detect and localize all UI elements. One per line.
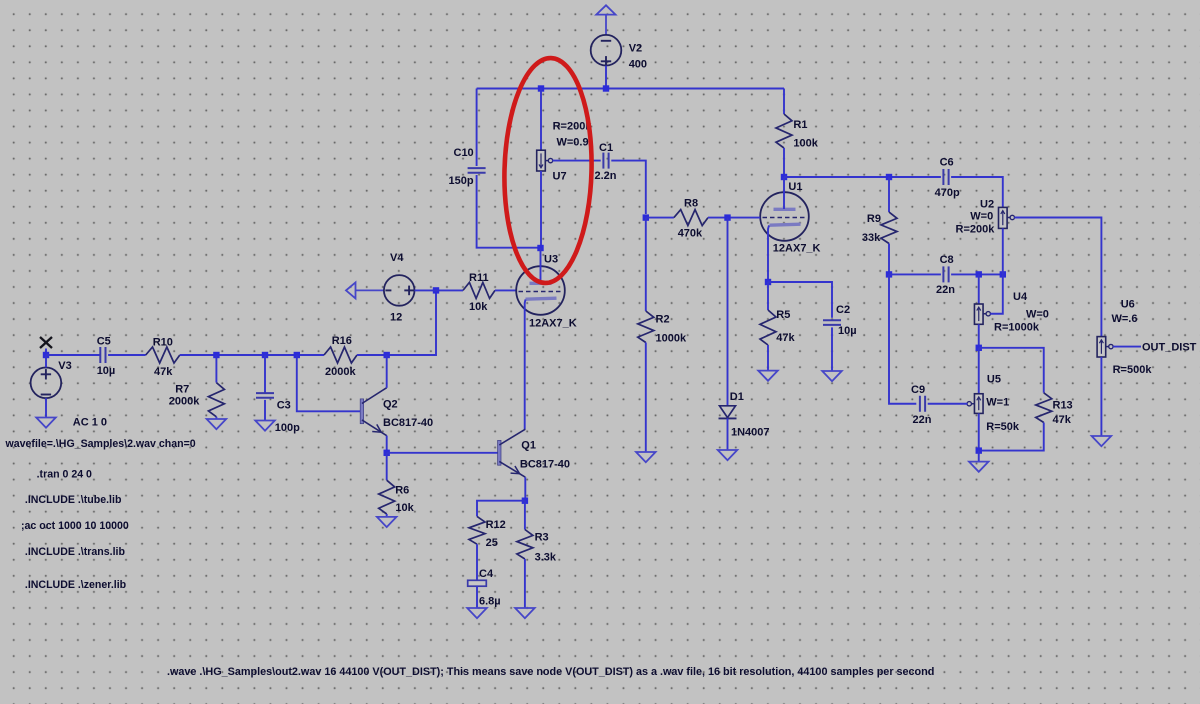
svg-text:12AX7_K: 12AX7_K xyxy=(773,243,821,255)
wire R12 to C4 xyxy=(476,544,478,580)
junction input node xyxy=(43,352,49,358)
junction C1/R8/R2 node xyxy=(643,214,649,220)
svg-text:BC817-40: BC817-40 xyxy=(383,417,433,429)
potentiometer U5 xyxy=(967,373,1020,433)
svg-text:R5: R5 xyxy=(776,309,790,321)
svg-text:10µ: 10µ xyxy=(97,365,116,377)
diode D1 xyxy=(719,391,770,438)
svg-text:470p: 470p xyxy=(935,187,960,199)
svg-text:R3: R3 xyxy=(535,532,549,544)
wire top B+ rail xyxy=(477,88,784,90)
svg-text:U2: U2 xyxy=(980,199,994,211)
svg-text:100k: 100k xyxy=(793,137,818,149)
resistor R12 xyxy=(469,516,506,548)
voltage source V2 xyxy=(591,35,647,70)
ground below R3 xyxy=(515,608,535,618)
transistor Q2 xyxy=(360,388,433,436)
svg-text:U3: U3 xyxy=(544,253,558,265)
svg-text:12AX7_K: 12AX7_K xyxy=(529,317,577,329)
svg-text:W=0: W=0 xyxy=(970,211,993,223)
junction U1 plate node xyxy=(781,174,787,180)
svg-text:W=1: W=1 xyxy=(986,396,1009,408)
svg-text:V2: V2 xyxy=(629,43,642,55)
wire U5 bottom lead xyxy=(978,413,980,450)
wire R1 top lead xyxy=(783,89,785,115)
wire X stub xyxy=(45,349,47,356)
resistor R13 xyxy=(1036,393,1073,426)
wire U2 bottom lead xyxy=(1002,228,1004,274)
junction V2 on rail xyxy=(603,85,609,91)
wire U7 wiper to C1 xyxy=(552,160,600,162)
wire C1 to R8 node xyxy=(611,161,646,214)
resistor R11 xyxy=(463,272,495,313)
svg-text:C9: C9 xyxy=(911,384,925,396)
ground below C3 xyxy=(255,421,275,431)
voltage source V3 xyxy=(31,360,107,429)
wire R2 bottom lead xyxy=(645,343,647,453)
wire C10 left branch bottom xyxy=(477,175,541,248)
svg-text:22n: 22n xyxy=(936,284,955,296)
junction U1 cathode node xyxy=(765,279,771,285)
wire R13 bottom lead xyxy=(979,423,1044,451)
svg-text:C1: C1 xyxy=(599,142,613,154)
resistor R7 xyxy=(169,383,225,417)
capacitor C10 xyxy=(449,147,486,187)
junction U7 top on rail xyxy=(538,85,544,91)
svg-text:2.2n: 2.2n xyxy=(595,170,617,182)
wire R6 top lead xyxy=(386,453,388,480)
wire U3 cathode lead xyxy=(524,299,527,429)
wire D1 top lead xyxy=(727,218,729,406)
resistor R2 xyxy=(638,311,687,344)
capacitor C5 xyxy=(97,335,116,377)
wire U4 node to R13 xyxy=(979,348,1044,393)
power flag left of V4 xyxy=(346,282,384,298)
svg-text:.INCLUDE .\tube.lib: .INCLUDE .\tube.lib xyxy=(25,494,122,506)
wire U6 bottom lead xyxy=(1100,357,1102,436)
junction R7 node xyxy=(213,352,219,358)
power flag above V2 xyxy=(596,5,615,34)
svg-text:1000k: 1000k xyxy=(656,332,687,344)
svg-text:BC817-40: BC817-40 xyxy=(520,459,570,471)
ground below R7 xyxy=(207,419,227,429)
resistor R1 xyxy=(776,114,819,149)
voltage source V4 xyxy=(384,252,415,324)
wire R1 bottom lead xyxy=(783,148,785,177)
resistor R10 xyxy=(146,337,180,379)
svg-text:R2: R2 xyxy=(656,313,670,325)
resistor R16 xyxy=(324,335,357,378)
wire U1 cathode lead xyxy=(768,225,769,282)
wire C3 top lead xyxy=(264,355,266,393)
wire U6 wiper wire xyxy=(1113,346,1141,348)
wire C4 bottom lead xyxy=(476,586,478,608)
resistor R6 xyxy=(379,480,415,514)
wire C8 rail right xyxy=(951,273,1003,275)
wire C10 left branch top xyxy=(476,89,478,167)
svg-text:R6: R6 xyxy=(395,484,409,496)
junction C3 node xyxy=(262,352,268,358)
svg-text:.INCLUDE .\trans.lib: .INCLUDE .\trans.lib xyxy=(25,546,126,558)
capacitor C2 xyxy=(823,304,857,337)
svg-text:C5: C5 xyxy=(97,335,111,347)
wire R9 down to C9 xyxy=(889,274,916,403)
wire C6 to U2 top xyxy=(951,177,1003,207)
junction Q1 emitter node xyxy=(522,498,528,504)
ground below V3 xyxy=(36,418,56,428)
junction R9 bottom node xyxy=(886,271,892,277)
svg-text:R9: R9 xyxy=(867,213,881,225)
junction R9 top on plate rail xyxy=(886,174,892,180)
svg-text:150p: 150p xyxy=(449,175,474,187)
wire R3 top lead xyxy=(524,501,526,530)
wire R7 top lead xyxy=(215,355,217,383)
svg-text:22n: 22n xyxy=(913,414,932,426)
svg-text:R7: R7 xyxy=(175,384,189,396)
svg-text:U7: U7 xyxy=(553,171,567,183)
svg-text:R13: R13 xyxy=(1053,399,1073,411)
triode U3 xyxy=(516,253,577,329)
svg-text:R=200k: R=200k xyxy=(956,224,996,236)
wire C8 rail left xyxy=(889,273,941,275)
resistor R5 xyxy=(760,309,796,345)
triode U1 xyxy=(760,181,820,255)
svg-text:25: 25 xyxy=(486,537,498,549)
potentiometer U7 xyxy=(537,121,593,183)
ground below D1 xyxy=(718,450,738,460)
svg-text:C8: C8 xyxy=(940,254,954,266)
svg-text:C6: C6 xyxy=(940,156,954,168)
wire R16 to V4 corner xyxy=(357,290,436,355)
svg-text:Q2: Q2 xyxy=(383,398,398,410)
wire V3 top lead xyxy=(45,355,47,367)
svg-text:Q1: Q1 xyxy=(521,439,536,451)
wire D1 bottom lead xyxy=(727,418,729,450)
wire U1 grid lead xyxy=(728,217,761,219)
svg-text:D1: D1 xyxy=(730,391,744,403)
wire R3 bottom lead xyxy=(524,559,526,608)
capacitor C3 xyxy=(256,393,300,434)
svg-text:R=50k: R=50k xyxy=(986,421,1020,433)
wire Q1 emitter wire xyxy=(524,477,526,501)
wire U4 wiper loop xyxy=(990,274,1003,313)
svg-text:R1: R1 xyxy=(793,119,807,131)
wire U7 top lead xyxy=(540,89,542,151)
svg-text:R16: R16 xyxy=(332,335,352,347)
wire R9 bottom lead xyxy=(888,244,890,275)
wire Q2 collector wire xyxy=(386,355,388,388)
wire C5 to R10 xyxy=(108,354,146,356)
wire emitter node to R12 xyxy=(477,501,525,517)
ground below R6 xyxy=(377,517,397,527)
svg-text:OUT_DIST: OUT_DIST xyxy=(1142,341,1197,353)
wire V3 bottom lead xyxy=(45,398,47,417)
svg-text:W=.6: W=.6 xyxy=(1112,313,1138,325)
wire U5 top lead xyxy=(978,348,980,394)
svg-text:U4: U4 xyxy=(1013,291,1028,303)
ground below R2 xyxy=(636,452,656,462)
svg-text:10k: 10k xyxy=(469,301,488,313)
wire R10 to R16 rail xyxy=(180,354,324,356)
svg-text:R=500k: R=500k xyxy=(1113,364,1153,376)
wire Q2 emitter wire xyxy=(386,436,388,453)
wire cathode node to C2 xyxy=(768,282,832,318)
resistor R3 xyxy=(517,530,557,564)
svg-text:3.3k: 3.3k xyxy=(535,552,557,564)
svg-text:C10: C10 xyxy=(454,147,474,159)
junction U4 bottom node xyxy=(976,345,982,351)
resistor R9 xyxy=(862,212,897,244)
ground below U6 xyxy=(1092,436,1112,446)
capacitor C9 xyxy=(911,384,932,426)
capacitor C8 xyxy=(936,254,955,296)
wire Q2 base wire xyxy=(297,355,360,411)
svg-text:V4: V4 xyxy=(390,252,404,264)
input port X xyxy=(40,337,52,348)
wire R7 bottom lead xyxy=(215,417,217,419)
junction U2 bottom node xyxy=(1000,271,1006,277)
svg-text:C3: C3 xyxy=(277,399,291,411)
potentiometer U2 xyxy=(956,199,1015,236)
ground below C2 xyxy=(822,371,842,381)
svg-text:.INCLUDE .\zener.lib: .INCLUDE .\zener.lib xyxy=(25,579,127,591)
svg-text:100p: 100p xyxy=(275,422,300,434)
wire V4 corner to R11 xyxy=(436,289,463,291)
wire U2 wiper to U6 xyxy=(1014,218,1101,337)
svg-text:wavefile=.\HG_Samples\2.wav ch: wavefile=.\HG_Samples\2.wav chan=0 xyxy=(5,438,196,450)
svg-text:33k: 33k xyxy=(862,232,881,244)
svg-text:6.8µ: 6.8µ xyxy=(479,596,501,608)
junction U4 top node xyxy=(976,271,982,277)
junction Q2 emitter node xyxy=(384,450,390,456)
wire U3 plate lead xyxy=(540,248,542,283)
wire R8 left lead xyxy=(646,217,674,219)
svg-text:400: 400 xyxy=(629,58,647,70)
wire Q1 base wire xyxy=(387,452,498,454)
capacitor C1 xyxy=(595,142,617,182)
wire U5 ground stem xyxy=(978,451,980,462)
wire V2 to rail xyxy=(605,66,607,89)
junction V4 corner node xyxy=(433,287,439,293)
wire R6 bottom lead xyxy=(386,514,388,517)
wire R2 top lead xyxy=(645,218,647,311)
svg-text:U6: U6 xyxy=(1121,298,1135,310)
wire R11 to U3 grid xyxy=(495,289,516,291)
wire R8 right lead xyxy=(708,217,728,219)
potentiometer U4 xyxy=(974,291,1048,334)
svg-text:2000k: 2000k xyxy=(169,396,200,408)
svg-text:W=0: W=0 xyxy=(1026,308,1049,320)
red annotation ellipse xyxy=(502,57,595,284)
wire R9 top lead xyxy=(888,177,890,212)
svg-text:12: 12 xyxy=(390,312,402,324)
junction R8/D1 node xyxy=(724,214,730,220)
wire C9 to U5 wiper xyxy=(928,403,968,405)
wire U1 plate lead xyxy=(783,177,785,209)
capacitor C6 xyxy=(935,156,960,199)
svg-text:C4: C4 xyxy=(479,568,494,580)
svg-text:.tran 0 24 0: .tran 0 24 0 xyxy=(37,469,92,481)
svg-text:C2: C2 xyxy=(836,304,850,316)
wire input rail to C5 xyxy=(46,354,100,356)
svg-text:R=1000k: R=1000k xyxy=(994,322,1040,334)
svg-text:R8: R8 xyxy=(684,197,698,209)
wire U7 bottom lead xyxy=(540,171,542,248)
svg-text:10µ: 10µ xyxy=(838,325,857,337)
svg-text:U5: U5 xyxy=(987,373,1001,385)
wire V4 to R11 xyxy=(415,289,437,291)
ground below U5 xyxy=(969,462,989,472)
potentiometer U6 xyxy=(1097,298,1152,376)
svg-text:.wave .\HG_Samples\out2.wav 16: .wave .\HG_Samples\out2.wav 16 44100 V(O… xyxy=(167,666,934,678)
ground below R5 xyxy=(758,371,778,381)
junction Q2 base node xyxy=(294,352,300,358)
svg-text:AC 1 0: AC 1 0 xyxy=(73,417,107,429)
svg-text:U1: U1 xyxy=(788,181,802,193)
svg-text:470k: 470k xyxy=(678,227,703,239)
svg-text:10k: 10k xyxy=(395,502,414,514)
svg-text:47k: 47k xyxy=(1053,414,1072,426)
wire U4 top lead xyxy=(978,274,980,304)
wire R5 bottom lead xyxy=(767,345,769,371)
junction U5 bottom node xyxy=(976,447,982,453)
svg-text:R11: R11 xyxy=(469,272,489,284)
wire C2 bottom lead xyxy=(831,327,833,371)
junction Q2 collector node xyxy=(384,352,390,358)
wire R5 top lead xyxy=(767,282,769,310)
ground below C4 xyxy=(467,608,487,618)
svg-text:W=0.9: W=0.9 xyxy=(557,137,589,149)
wire C3 bottom lead xyxy=(264,400,266,421)
svg-text:2000k: 2000k xyxy=(325,366,356,378)
capacitor C4 xyxy=(468,568,501,607)
svg-text:1N4007: 1N4007 xyxy=(731,426,770,438)
wire U4 bottom lead xyxy=(978,324,980,348)
resistor R8 xyxy=(674,197,708,239)
svg-text:V3: V3 xyxy=(58,360,71,372)
svg-text:;ac oct 1000 10 10000: ;ac oct 1000 10 10000 xyxy=(21,520,129,532)
junction U3 plate node xyxy=(537,245,543,251)
svg-text:47k: 47k xyxy=(776,332,795,344)
wire plate rail to C6 xyxy=(784,176,941,178)
svg-text:47k: 47k xyxy=(154,366,173,378)
transistor Q1 xyxy=(498,429,570,477)
svg-text:R12: R12 xyxy=(486,519,506,531)
svg-text:R10: R10 xyxy=(153,337,173,349)
